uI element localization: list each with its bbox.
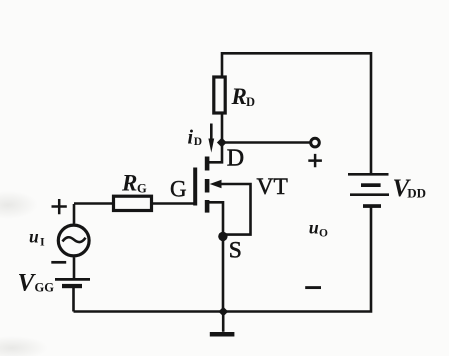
svg-text:O: O xyxy=(319,227,328,239)
svg-text:D: D xyxy=(227,146,244,172)
svg-text:DD: DD xyxy=(407,186,426,201)
svg-text:u: u xyxy=(29,227,39,247)
svg-text:D: D xyxy=(194,136,202,148)
svg-text:S: S xyxy=(229,238,242,264)
svg-text:u: u xyxy=(309,218,319,238)
svg-text:GG: GG xyxy=(35,281,55,295)
svg-text:G: G xyxy=(170,177,187,202)
svg-text:R: R xyxy=(121,171,137,196)
svg-text:D: D xyxy=(246,95,255,109)
svg-text:VT: VT xyxy=(257,174,288,200)
svg-text:i: i xyxy=(188,126,194,148)
svg-text:R: R xyxy=(231,84,247,109)
svg-text:I: I xyxy=(40,235,45,249)
svg-text:G: G xyxy=(137,182,147,196)
